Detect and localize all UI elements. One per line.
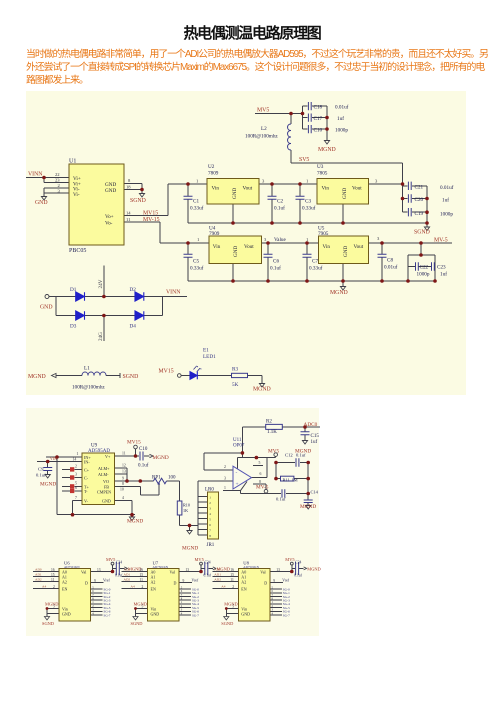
svg-text:C19: C19 (415, 211, 424, 217)
svg-text:4: 4 (122, 496, 124, 500)
svg-text:+: + (236, 482, 239, 488)
svg-text:MGND: MGND (182, 546, 198, 552)
svg-text:2: 2 (224, 465, 226, 469)
svg-text:100: 100 (168, 476, 176, 481)
svg-text:C10: C10 (139, 447, 148, 452)
svg-text:MV-5: MV-5 (256, 485, 269, 491)
svg-text:5: 5 (259, 461, 261, 465)
svg-text:8: 8 (259, 480, 261, 484)
svg-text:VINN: VINN (166, 290, 181, 296)
svg-text:14: 14 (73, 458, 77, 462)
svg-text:PBC05: PBC05 (69, 248, 86, 254)
svg-text:L1: L1 (84, 366, 90, 372)
svg-text:C-: C- (84, 476, 89, 481)
svg-text:6: 6 (260, 472, 262, 476)
svg-text:9: 9 (122, 477, 124, 481)
svg-text:2: 2 (75, 465, 77, 469)
svg-text:IN-: IN- (84, 460, 90, 465)
svg-text:C14: C14 (311, 490, 319, 495)
svg-text:JR1: JR1 (207, 543, 215, 548)
svg-text:Vout: Vout (243, 186, 253, 192)
svg-text:SV5: SV5 (299, 157, 309, 163)
svg-text:U9: U9 (91, 444, 98, 449)
svg-text:1uf: 1uf (311, 440, 318, 445)
svg-text:VO: VO (103, 479, 109, 484)
svg-text:D3: D3 (70, 324, 77, 330)
svg-text:GND: GND (40, 305, 53, 311)
svg-text:MV15: MV15 (127, 440, 141, 446)
svg-text:VINN: VINN (28, 172, 43, 178)
svg-text:ADC0: ADC0 (304, 422, 318, 428)
svg-text:100R@100mhz: 100R@100mhz (72, 385, 105, 391)
svg-text:C17: C17 (314, 116, 323, 122)
svg-text:D4: D4 (130, 324, 137, 330)
svg-text:SGND: SGND (123, 374, 139, 380)
svg-text:0.01uf: 0.01uf (384, 264, 398, 271)
svg-text:C23: C23 (437, 265, 446, 271)
svg-text:1uf: 1uf (440, 271, 447, 278)
svg-text:V-: V- (84, 499, 89, 504)
svg-text:C+: C+ (84, 468, 90, 473)
svg-text:GND: GND (233, 246, 239, 257)
svg-text:U3: U3 (317, 164, 324, 170)
svg-text:1: 1 (77, 452, 79, 456)
svg-text:LR0: LR0 (205, 488, 214, 493)
svg-text:0.33uf: 0.33uf (309, 265, 323, 272)
svg-text:MGND: MGND (318, 147, 336, 153)
svg-text:Vin: Vin (212, 186, 220, 192)
svg-text:0.1uf: 0.1uf (270, 265, 281, 272)
svg-text:7905: 7905 (318, 231, 329, 237)
svg-text:1M: 1M (292, 478, 298, 483)
svg-text:1K: 1K (183, 508, 188, 513)
svg-text:R2: R2 (266, 420, 272, 425)
svg-text:7: 7 (75, 496, 77, 500)
svg-text:U8: U8 (243, 560, 249, 565)
svg-text:Vo+: Vo+ (105, 214, 114, 220)
svg-text:1uf: 1uf (442, 197, 449, 204)
svg-text:Vin: Vin (213, 244, 221, 250)
svg-text:GND: GND (105, 188, 116, 194)
svg-text:ALM+: ALM+ (98, 466, 110, 471)
svg-text:C7: C7 (312, 259, 318, 265)
svg-text:7909: 7909 (209, 231, 220, 237)
svg-text:Vin: Vin (323, 244, 331, 250)
svg-text:Value: Value (274, 237, 287, 243)
svg-text:Vo-: Vo- (105, 221, 113, 227)
svg-text:Vin: Vin (322, 186, 330, 192)
svg-text:0.01uf: 0.01uf (335, 104, 349, 111)
svg-text:1uf: 1uf (337, 115, 344, 122)
svg-text:D2: D2 (130, 287, 137, 293)
svg-text:MV5: MV5 (268, 449, 280, 455)
svg-text:0.1uf: 0.1uf (138, 464, 149, 469)
svg-text:MV5: MV5 (257, 108, 269, 114)
svg-text:GND: GND (343, 246, 349, 257)
svg-text:24G: 24G (98, 332, 104, 341)
svg-text:C12: C12 (285, 453, 293, 458)
svg-text:ALM-: ALM- (98, 472, 109, 477)
svg-text:SGND: SGND (130, 198, 146, 204)
svg-text:C5: C5 (193, 259, 199, 265)
svg-text:GND: GND (232, 188, 238, 199)
svg-text:C15: C15 (311, 434, 320, 439)
svg-text:0.33uf: 0.33uf (190, 265, 204, 272)
svg-text:MV15: MV15 (159, 369, 174, 375)
svg-text:MGND: MGND (330, 290, 348, 296)
svg-text:8: 8 (122, 482, 124, 486)
svg-text:Vi-: Vi- (73, 192, 80, 198)
svg-text:22: 22 (55, 172, 60, 177)
svg-text:0.1uf: 0.1uf (274, 205, 285, 212)
svg-text:11: 11 (126, 217, 131, 222)
svg-text:MGND: MGND (40, 482, 56, 488)
svg-text:OP07: OP07 (233, 444, 245, 449)
svg-text:MGND: MGND (153, 455, 169, 461)
svg-text:D1: D1 (70, 287, 77, 293)
svg-text:C18: C18 (314, 105, 323, 111)
svg-text:LED1: LED1 (203, 354, 216, 360)
svg-text:Vout: Vout (244, 244, 254, 250)
svg-text:-: - (236, 470, 238, 476)
svg-text:0.01uf: 0.01uf (440, 184, 454, 191)
svg-text:C6: C6 (273, 259, 279, 265)
svg-text:11: 11 (122, 452, 126, 456)
svg-text:U7: U7 (153, 560, 159, 565)
svg-text:100R@100mhz: 100R@100mhz (245, 134, 278, 140)
svg-text:1000p: 1000p (417, 272, 430, 278)
svg-text:RP1: RP1 (152, 476, 161, 481)
svg-text:MGND: MGND (253, 387, 271, 393)
svg-text:13: 13 (122, 470, 126, 474)
svg-text:U1: U1 (69, 159, 76, 165)
svg-text:5K: 5K (232, 382, 239, 388)
svg-text:GND: GND (35, 200, 48, 206)
svg-text:23: 23 (55, 178, 60, 183)
svg-text:1000p: 1000p (335, 128, 348, 134)
svg-text:Vout: Vout (354, 244, 364, 250)
svg-text:0.1uf: 0.1uf (296, 453, 306, 458)
svg-text:U11: U11 (233, 438, 242, 443)
svg-text:10: 10 (120, 488, 124, 492)
svg-text:12: 12 (122, 464, 126, 468)
svg-text:C3: C3 (305, 199, 311, 205)
svg-text:24V: 24V (98, 279, 104, 288)
svg-text:3: 3 (224, 477, 226, 481)
svg-text:U2: U2 (208, 164, 215, 170)
svg-text:C16: C16 (314, 128, 323, 134)
svg-text:5: 5 (75, 482, 77, 486)
svg-text:VIN: VIN (50, 457, 57, 461)
svg-text:0.1uf: 0.1uf (36, 473, 46, 478)
svg-text:C1: C1 (193, 199, 199, 205)
svg-text:Vout: Vout (352, 186, 362, 192)
svg-text:MGND: MGND (28, 374, 46, 380)
svg-text:C22: C22 (420, 265, 429, 271)
svg-text:V+: V+ (105, 454, 111, 459)
svg-text:1000p: 1000p (440, 212, 453, 218)
svg-text:6: 6 (75, 486, 77, 490)
svg-text:E1: E1 (203, 348, 209, 354)
svg-text:0.1uf: 0.1uf (276, 497, 286, 502)
svg-text:C2: C2 (277, 199, 283, 205)
svg-text:R3: R3 (232, 367, 238, 373)
svg-text:C9: C9 (38, 467, 44, 472)
svg-text:SGND: SGND (414, 230, 430, 236)
svg-text:C8: C8 (387, 258, 393, 264)
svg-text:R11: R11 (283, 478, 290, 483)
svg-text:7805: 7805 (317, 171, 328, 177)
svg-text:3: 3 (75, 473, 77, 477)
svg-text:0.33uf: 0.33uf (302, 205, 316, 212)
svg-text:14: 14 (126, 211, 131, 216)
svg-text:R10: R10 (183, 503, 190, 508)
svg-text:MV15: MV15 (143, 211, 158, 217)
svg-text:C20: C20 (415, 197, 424, 203)
svg-text:MGND: MGND (300, 504, 316, 510)
svg-text:C21: C21 (415, 185, 424, 191)
svg-text:18: 18 (126, 185, 131, 190)
svg-text:1: 1 (224, 486, 226, 490)
svg-text:MV-15: MV-15 (143, 217, 160, 223)
svg-text:MGND: MGND (127, 519, 143, 525)
svg-text:GND: GND (102, 499, 111, 504)
svg-text:GND: GND (342, 188, 348, 199)
svg-text:CMPEN: CMPEN (97, 490, 111, 495)
svg-text:0.33uf: 0.33uf (190, 205, 204, 212)
svg-text:7809: 7809 (208, 171, 219, 177)
svg-text:U6: U6 (64, 560, 70, 565)
svg-text:1.1K: 1.1K (267, 430, 277, 435)
svg-text:MV-5: MV-5 (434, 238, 448, 244)
svg-text:L2: L2 (261, 126, 267, 132)
